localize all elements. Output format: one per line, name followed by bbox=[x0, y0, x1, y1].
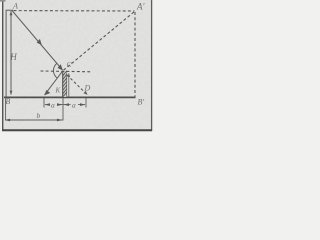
svg-text:K: K bbox=[55, 87, 61, 95]
svg-text:B′: B′ bbox=[138, 98, 145, 107]
svg-text:H: H bbox=[9, 52, 17, 62]
svg-text:D: D bbox=[84, 84, 91, 93]
svg-text:a: a bbox=[72, 101, 76, 110]
svg-text:A: A bbox=[12, 2, 18, 11]
svg-text:a: a bbox=[51, 101, 55, 110]
svg-text:B: B bbox=[5, 97, 10, 106]
svg-text:b: b bbox=[37, 111, 41, 120]
svg-text:A′: A′ bbox=[136, 2, 145, 12]
